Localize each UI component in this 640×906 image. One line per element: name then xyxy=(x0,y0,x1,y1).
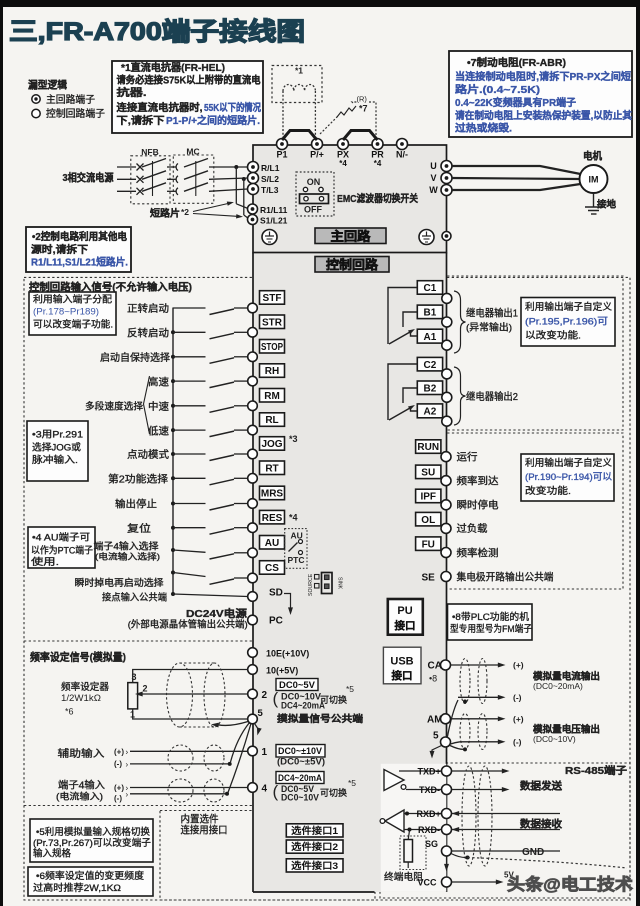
svg-text:P1-P/+之间的短路片.: P1-P/+之间的短路片. xyxy=(166,114,260,127)
svg-text:接口: 接口 xyxy=(395,619,416,632)
shield cable aux xyxy=(168,745,193,771)
svg-text:*6: *6 xyxy=(65,707,74,717)
svg-text:•2控制电路利用其他电: •2控制电路利用其他电 xyxy=(32,230,127,243)
svg-text:S1/L21: S1/L21 xyxy=(260,215,288,225)
svg-text:MRS: MRS xyxy=(261,489,284,500)
svg-text:摸拟量信号公共端: 摸拟量信号公共端 xyxy=(277,713,364,725)
svg-text:中速: 中速 xyxy=(148,400,169,413)
open collector dashed box xyxy=(372,433,623,589)
svg-text:(+): (+) xyxy=(513,660,524,670)
svg-text:接点输入公共端: 接点输入公共端 xyxy=(102,591,167,603)
wire R1/L11 tap xyxy=(234,165,238,169)
svg-text:(DC0~20mA): (DC0~20mA) xyxy=(533,681,583,691)
svg-text:型专用型号为FM端子: 型专用型号为FM端子 xyxy=(450,623,532,635)
terminal 10 xyxy=(248,665,258,675)
RX receiver triangle xyxy=(385,810,404,832)
terminal4 voltage options xyxy=(276,772,324,784)
top black bar xyxy=(0,0,640,7)
DC reactor coil xyxy=(283,85,315,91)
wire SG xyxy=(452,850,561,852)
svg-text:3相交流电源: 3相交流电源 xyxy=(63,171,114,184)
svg-text:(Pr.73,Pr.267)可以改变端子: (Pr.73,Pr.267)可以改变端子 xyxy=(33,837,151,849)
svg-text:R1/L11: R1/L11 xyxy=(260,205,288,215)
svg-text:连接直流电抗器时,: 连接直流电抗器时, xyxy=(117,101,203,114)
wire AM minus xyxy=(451,742,461,744)
svg-text:DC4~20mA: DC4~20mA xyxy=(278,773,322,783)
inverter left spine xyxy=(252,253,254,893)
svg-text:RUN: RUN xyxy=(417,442,439,453)
svg-text:R/L1: R/L1 xyxy=(261,163,280,173)
svg-text:C2: C2 xyxy=(424,360,437,371)
svg-text:集电极开路输出公共端: 集电极开路输出公共端 xyxy=(457,571,554,584)
terminal R1/L11 xyxy=(248,204,258,214)
arrow below 5 right xyxy=(432,746,442,753)
svg-text:•8: •8 xyxy=(429,674,437,684)
svg-text:CA: CA xyxy=(428,661,442,672)
legend control-circuit terminal symbol xyxy=(32,109,40,117)
svg-text:VCC: VCC xyxy=(418,878,438,888)
svg-text:输入规格: 输入规格 xyxy=(33,848,71,860)
svg-text:USB: USB xyxy=(390,656,413,668)
svg-text:继电器输出2: 继电器输出2 xyxy=(466,390,518,403)
svg-text:选择JOG或: 选择JOG或 xyxy=(32,442,82,454)
terminal P/+ xyxy=(312,139,323,150)
note box relay output custom Pr.195 Pr.196 xyxy=(521,298,615,347)
svg-text:A1: A1 xyxy=(424,332,437,343)
relay 2 contact xyxy=(388,364,417,420)
svg-text:(Pr.178~Pr189): (Pr.178~Pr189) xyxy=(33,307,99,318)
svg-text:IM: IM xyxy=(589,175,599,185)
svg-text:改变功能.: 改变功能. xyxy=(525,485,571,497)
svg-text:PR: PR xyxy=(371,150,384,160)
note box *4 AU PTC terminal xyxy=(28,527,95,568)
terminal N/- xyxy=(397,139,408,150)
inverter right spine xyxy=(446,253,448,893)
relay output 2 brace xyxy=(454,367,466,425)
svg-text:RES: RES xyxy=(262,513,283,524)
svg-text:高速: 高速 xyxy=(148,375,169,388)
MC dashed box xyxy=(173,155,214,203)
SG shield drain xyxy=(451,854,466,858)
brake resistor dashed connection *7 xyxy=(320,116,338,134)
RS-485 interior white patch xyxy=(381,764,447,892)
svg-text:头条@电工技术: 头条@电工技术 xyxy=(507,874,634,894)
terminal 10E xyxy=(248,648,258,658)
svg-text:C1: C1 xyxy=(424,283,437,294)
svg-text:*1直流电抗器(FR-HEL): *1直流电抗器(FR-HEL) xyxy=(121,61,225,74)
svg-text:过负载: 过负载 xyxy=(457,522,488,535)
terminal OL xyxy=(416,512,441,526)
svg-text:RL: RL xyxy=(265,415,278,426)
terminal STOP xyxy=(260,340,285,354)
input common bus wire xyxy=(172,308,174,595)
svg-text:反转启动: 反转启动 xyxy=(127,327,169,340)
svg-text:抗器.: 抗器. xyxy=(117,86,147,99)
option port 2 xyxy=(286,840,343,853)
svg-text:JOG: JOG xyxy=(261,439,282,450)
svg-text:(+): (+) xyxy=(513,714,524,724)
dashed divider y641 input/frequency xyxy=(24,640,362,642)
svg-text:频率设定信号(模拟量): 频率设定信号(模拟量) xyxy=(30,651,126,664)
note box open collector custom Pr.190-Pr.194 xyxy=(521,454,614,501)
wire AM plus xyxy=(451,718,500,720)
terminal MRS xyxy=(260,486,285,500)
svg-text:漏型逻辑: 漏型逻辑 xyxy=(28,79,67,92)
svg-text:(异常输出): (异常输出) xyxy=(466,322,512,334)
svg-text:选件接口2: 选件接口2 xyxy=(291,841,338,853)
common curve 5 to t4 minus xyxy=(228,724,251,793)
svg-text:SU: SU xyxy=(421,467,435,478)
arrow to S1 jumper xyxy=(193,214,237,217)
svg-text:接地: 接地 xyxy=(597,199,616,211)
dashed divider vertical x362 xyxy=(361,277,363,805)
svg-text:1: 1 xyxy=(262,747,268,758)
wire VCC out xyxy=(452,881,498,883)
terminal A2 xyxy=(417,404,442,418)
svg-text:输出停止: 输出停止 xyxy=(115,498,157,511)
terminal A1 xyxy=(417,329,442,343)
svg-text:(: ( xyxy=(273,782,279,801)
svg-text:2: 2 xyxy=(262,690,268,701)
SG down arrow xyxy=(446,857,448,866)
svg-text:›: › xyxy=(126,790,129,799)
wire TXD- out xyxy=(452,789,504,791)
svg-text:连接用接口: 连接用接口 xyxy=(181,824,228,837)
terminal RUN xyxy=(416,440,441,454)
svg-text:B2: B2 xyxy=(424,383,437,394)
svg-text:当连接制动电阻时,请拆下PR-PX之间短: 当连接制动电阻时,请拆下PR-PX之间短 xyxy=(455,70,631,83)
svg-text:DC4~20mA: DC4~20mA xyxy=(281,701,325,711)
terminal PX xyxy=(338,139,349,150)
svg-text:T/L3: T/L3 xyxy=(261,185,279,195)
ground terminal left xyxy=(262,230,277,245)
svg-text:路片.(0.4~7.5K): 路片.(0.4~7.5K) xyxy=(455,83,540,96)
note box input terminal assignment Pr.178-Pr.189 xyxy=(29,292,116,335)
svg-text:IPF: IPF xyxy=(420,492,436,503)
control circuit label xyxy=(315,257,389,273)
svg-text:SD: SD xyxy=(269,587,283,598)
legend main-circuit terminal symbol xyxy=(32,95,40,103)
svg-text:SE: SE xyxy=(422,573,436,584)
svg-text:可切换: 可切换 xyxy=(320,787,347,798)
svg-text:*5: *5 xyxy=(346,684,354,694)
svg-text:•3用Pr.291: •3用Pr.291 xyxy=(32,430,83,441)
terminal B1 xyxy=(417,305,442,319)
svg-text:RM: RM xyxy=(264,391,280,402)
svg-text:控制回路输入信号(不允许输入电压): 控制回路输入信号(不允许输入电压) xyxy=(29,281,192,294)
note box *3 JOG Pr.291 xyxy=(27,421,88,481)
svg-text:DC24V电源: DC24V电源 xyxy=(186,607,248,620)
common curve 5 to aux minus xyxy=(231,723,250,763)
terminal JOG xyxy=(260,437,285,451)
terminal RXD- xyxy=(404,829,442,831)
svg-text:•7制动电阻(FR-ABR): •7制动电阻(FR-ABR) xyxy=(467,56,566,69)
svg-text:以作为PTC端子: 以作为PTC端子 xyxy=(31,545,93,557)
RS-485 dashed box xyxy=(380,763,630,898)
svg-text:•8带PLC功能的机: •8带PLC功能的机 xyxy=(452,611,530,623)
svg-text:›: › xyxy=(126,747,129,756)
main circuit label xyxy=(315,228,386,244)
svg-text:STOP: STOP xyxy=(261,342,283,353)
svg-text:请在制动电阻上安装热保护装置,以防止其: 请在制动电阻上安装热保护装置,以防止其 xyxy=(455,109,632,122)
svg-text:PX: PX xyxy=(337,150,349,160)
wire V to motor xyxy=(452,178,580,179)
svg-text:RT: RT xyxy=(265,463,278,474)
terminal S1/L21 xyxy=(248,215,258,225)
motor ground wire xyxy=(593,193,595,207)
svg-text:OFF: OFF xyxy=(304,205,322,215)
terminal TXD- xyxy=(406,789,442,791)
inverter interior xyxy=(253,145,447,892)
terminating resistor dotted box xyxy=(400,836,426,870)
terminal1 voltage options xyxy=(276,745,325,758)
svg-text:复位: 复位 xyxy=(127,522,151,535)
terminal 2 xyxy=(248,689,258,699)
terminal IPF xyxy=(416,489,441,503)
svg-text:主回路: 主回路 xyxy=(331,228,372,243)
phase S wire with NFB and MC xyxy=(117,178,136,180)
svg-text:•5利用模拟量输入规格切换: •5利用模拟量输入规格切换 xyxy=(36,826,150,838)
jumper PX to PR xyxy=(343,131,378,141)
svg-text:S/L2: S/L2 xyxy=(261,174,279,184)
svg-text:正转启动: 正转启动 xyxy=(127,302,169,315)
svg-text:N/-: N/- xyxy=(396,150,408,160)
terminal 4 xyxy=(248,783,258,793)
terminal FU xyxy=(416,537,441,551)
relay output 1 brace xyxy=(454,291,466,353)
svg-text:TXD+: TXD+ xyxy=(418,767,441,777)
svg-text:10E(+10V): 10E(+10V) xyxy=(266,649,309,659)
arrow below 5 xyxy=(255,724,258,729)
svg-text:利用输入端子分配: 利用输入端子分配 xyxy=(33,294,113,306)
wire TXD+ out xyxy=(452,770,504,772)
svg-text:0.4~22K变频器具有PR端子: 0.4~22K变频器具有PR端子 xyxy=(455,96,576,109)
ground terminal right xyxy=(419,230,434,245)
terminal STF xyxy=(260,291,285,305)
svg-text:FU: FU xyxy=(422,539,435,550)
svg-text:SOURCE: SOURCE xyxy=(308,573,314,596)
svg-text:可以改变端子功能.: 可以改变端子功能. xyxy=(33,319,113,331)
svg-text:点动模式: 点动模式 xyxy=(127,448,169,461)
terminal T/L3 xyxy=(248,184,259,195)
relay 1 contact xyxy=(388,288,417,345)
svg-text:选件接口3: 选件接口3 xyxy=(291,860,338,872)
svg-text:低速: 低速 xyxy=(148,424,169,437)
jumper P1 to P/+ xyxy=(282,131,317,141)
note box *1 DC reactor FR-HEL xyxy=(112,61,263,133)
svg-text:2: 2 xyxy=(143,684,148,694)
EMC switch dotted box xyxy=(296,172,334,216)
svg-text:数据发送: 数据发送 xyxy=(520,780,563,793)
svg-text:5: 5 xyxy=(433,731,439,742)
terminal RES xyxy=(260,510,285,524)
svg-text:下,请拆下: 下,请拆下 xyxy=(117,114,165,127)
terminal TXD+ xyxy=(399,770,442,772)
svg-text:电机: 电机 xyxy=(583,150,602,163)
DC reactor *1 dashed box xyxy=(272,66,322,103)
EMC switch plug xyxy=(300,194,329,204)
inverter bottom edge xyxy=(253,891,375,893)
svg-text:启动自保持选择: 启动自保持选择 xyxy=(100,351,170,364)
left black bar xyxy=(0,0,3,906)
svg-text:SG: SG xyxy=(425,839,438,849)
svg-text:B1: B1 xyxy=(424,307,437,318)
potentiometer frequency setter xyxy=(128,683,138,709)
shield cable CA xyxy=(460,659,470,704)
terminal S/L2 xyxy=(248,173,259,184)
svg-text:脉冲输入.: 脉冲输入. xyxy=(32,454,78,466)
svg-text:(DC0~10V): (DC0~10V) xyxy=(533,734,576,744)
wire RXD- in xyxy=(452,829,561,831)
svg-text:RXD-: RXD- xyxy=(418,825,440,835)
USB interface box xyxy=(383,647,421,684)
svg-text:端子4输入: 端子4输入 xyxy=(58,779,105,792)
svg-text:(电流输入选择): (电流输入选择) xyxy=(95,552,160,562)
svg-text:10(+5V): 10(+5V) xyxy=(266,666,298,676)
svg-text:使用.: 使用. xyxy=(31,556,59,568)
terminal CS xyxy=(260,561,285,575)
arrow to R1 jumper xyxy=(193,204,228,212)
svg-text:运行: 运行 xyxy=(457,451,478,464)
terminal STR xyxy=(260,315,285,329)
wire reactor to P1 xyxy=(282,91,284,137)
terminal C1 xyxy=(417,281,442,295)
svg-text:•6频率设定值的变更频度: •6频率设定值的变更频度 xyxy=(36,870,145,882)
svg-text:频率设定器: 频率设定器 xyxy=(61,681,109,693)
svg-text:*5: *5 xyxy=(348,778,356,788)
terminal P1 xyxy=(277,139,288,150)
svg-text:(+): (+) xyxy=(114,784,124,793)
svg-text:›: › xyxy=(126,760,129,769)
svg-text:AU: AU xyxy=(265,538,279,549)
option port 3 xyxy=(286,859,343,872)
svg-text:选件接口1: 选件接口1 xyxy=(291,825,339,837)
wire W to motor xyxy=(452,184,581,190)
svg-text:R1/L11,S1/L21短路片.: R1/L11,S1/L21短路片. xyxy=(31,256,128,269)
svg-text:(DC0~±5V): (DC0~±5V) xyxy=(277,757,325,767)
svg-text:SINK: SINK xyxy=(337,577,343,590)
svg-text:STR: STR xyxy=(262,317,283,328)
svg-text:•4 AU端子可: •4 AU端子可 xyxy=(32,532,90,544)
svg-text:*3: *3 xyxy=(289,434,298,444)
svg-text:(外部电源晶体管输出公共端): (外部电源晶体管输出公共端) xyxy=(128,619,248,631)
svg-text:EMC滤波器切换开关: EMC滤波器切换开关 xyxy=(337,192,418,205)
svg-text:继电器输出1: 继电器输出1 xyxy=(466,307,518,320)
wire RXD+ in xyxy=(452,813,561,815)
SD to PC arrow xyxy=(284,594,291,609)
wire CA plus xyxy=(451,664,500,666)
svg-text:利用输出端子自定义: 利用输出端子自定义 xyxy=(525,301,612,313)
terminal SU xyxy=(416,465,441,479)
svg-text:GND: GND xyxy=(522,847,544,858)
svg-text:4: 4 xyxy=(262,784,268,795)
terminal 5 xyxy=(248,714,258,724)
svg-text:短路片: 短路片 xyxy=(150,207,180,219)
main circuit box outline xyxy=(253,145,447,253)
svg-text:利用输出端子自定义: 利用输出端子自定义 xyxy=(525,457,612,469)
note box *5 analog input spec Pr.73 Pr.267 xyxy=(30,819,153,862)
svg-text:瞬时掉电再启动选择: 瞬时掉电再启动选择 xyxy=(75,577,165,589)
svg-text:频率到达: 频率到达 xyxy=(457,475,499,488)
svg-text:(-): (-) xyxy=(513,693,522,703)
phase R wire with NFB and MC xyxy=(117,166,136,168)
terminal RXD+ xyxy=(404,813,442,815)
terminal RM xyxy=(260,389,285,403)
AU PTC selector dotted box xyxy=(285,529,307,569)
shield cable t4 xyxy=(168,779,193,802)
svg-text:RH: RH xyxy=(265,366,279,377)
relay output dashed box xyxy=(372,276,623,430)
svg-text:瞬时停电: 瞬时停电 xyxy=(457,499,499,512)
svg-text:*2: *2 xyxy=(181,207,189,217)
terminal W xyxy=(441,185,452,196)
built-in option dashed box xyxy=(160,811,375,901)
svg-text:(Pr.195,Pr.196)可: (Pr.195,Pr.196)可 xyxy=(525,317,608,328)
svg-text:(+): (+) xyxy=(114,748,124,757)
svg-text:STF: STF xyxy=(263,293,282,304)
svg-text:源时,请拆下: 源时,请拆下 xyxy=(31,243,88,256)
svg-text:(-): (-) xyxy=(114,794,122,803)
dashed divider y805 frequency bottom xyxy=(24,805,380,807)
wire reactor to P/+ xyxy=(314,91,316,137)
note box *2 control circuit power xyxy=(26,227,131,272)
wire pot terminal1 to 5 xyxy=(133,709,248,719)
shield cable RS-485 xyxy=(462,766,476,866)
terminal V xyxy=(441,173,452,184)
svg-text:W: W xyxy=(429,185,438,195)
svg-text:CS: CS xyxy=(265,563,279,574)
note box *7 brake resistor FR-ABR xyxy=(449,51,632,137)
svg-text:辅助输入: 辅助输入 xyxy=(58,747,105,760)
svg-text:内置选件: 内置选件 xyxy=(181,813,219,826)
multi-speed brace xyxy=(144,376,150,434)
svg-text:以改变功能.: 以改变功能. xyxy=(525,330,581,342)
wire U to motor xyxy=(452,166,581,174)
svg-text:数据接收: 数据接收 xyxy=(520,818,562,831)
svg-text:*7: *7 xyxy=(359,104,368,114)
wire CA minus xyxy=(447,700,458,739)
svg-text:请务必连接S75K以上附带的直流电: 请务必连接S75K以上附带的直流电 xyxy=(117,74,261,87)
terminating resistor xyxy=(404,840,413,863)
wire pot wiper to 2 xyxy=(139,693,248,695)
terminal PR xyxy=(372,139,383,150)
terminal AU xyxy=(260,536,285,550)
common curve 5 to pot shield xyxy=(218,722,248,726)
svg-text:(电流输入): (电流输入) xyxy=(56,791,103,802)
svg-text:多段速度选择: 多段速度选择 xyxy=(85,401,143,413)
terminal RT xyxy=(260,461,285,475)
note box *8 PLC FM terminal xyxy=(448,604,533,640)
svg-text:P/+: P/+ xyxy=(310,150,324,160)
NFB dashed box xyxy=(131,156,170,204)
svg-text:OL: OL xyxy=(421,515,435,526)
terminal2 voltage options xyxy=(276,679,318,691)
svg-text:(-): (-) xyxy=(513,737,522,747)
svg-text:TXD-: TXD- xyxy=(419,785,440,795)
svg-text:1/2W1kΩ: 1/2W1kΩ xyxy=(61,693,101,703)
terminal 1 xyxy=(248,746,258,756)
svg-text:过高时推荐2W,1KΩ: 过高时推荐2W,1KΩ xyxy=(33,882,121,894)
svg-text:PU: PU xyxy=(397,605,412,617)
svg-text:控制回路端子: 控制回路端子 xyxy=(46,107,105,120)
svg-text:*1: *1 xyxy=(295,66,303,76)
option port 1 xyxy=(286,824,343,837)
right black bar xyxy=(636,0,640,906)
NFB tie bar xyxy=(152,161,154,196)
svg-text:DC0~5V: DC0~5V xyxy=(279,680,315,690)
svg-text:PTC: PTC xyxy=(288,555,305,565)
svg-text:PC: PC xyxy=(269,615,283,626)
